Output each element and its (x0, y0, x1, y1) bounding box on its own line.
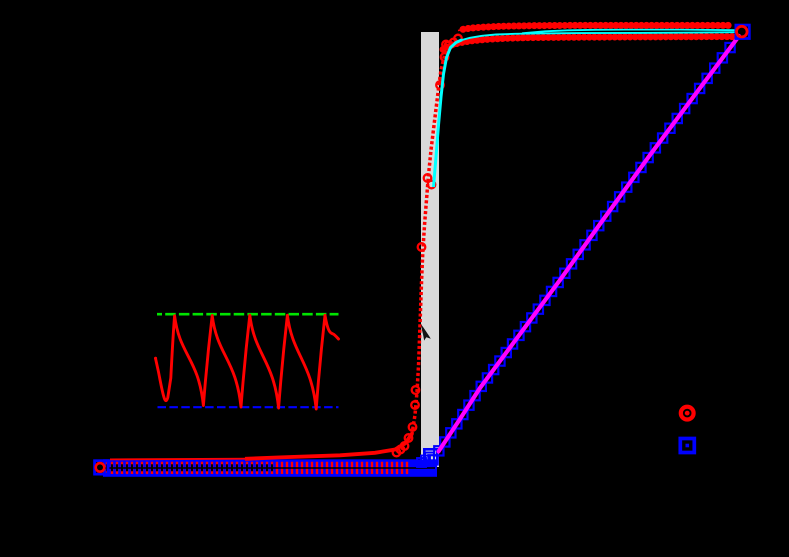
red dotted model line (lower branch into steep rise) (245, 434, 412, 459)
cyan model curve upper envelope (522, 30, 738, 34)
red circle data markers on rise (393, 449, 401, 457)
black marker holes (107, 464, 272, 471)
large blue square end marker (736, 25, 749, 38)
red lower envelope plateau (dense dots) (443, 37, 733, 50)
red upper envelope plateau (dense dots) (463, 25, 733, 29)
red upper envelope thin lead-in (458, 28, 472, 30)
large blue square marker at transition (424, 449, 437, 462)
gray transition band (421, 32, 439, 467)
red dotted steep rise line (412, 39, 458, 435)
large blue square start marker (95, 461, 108, 474)
inset green dashed max line (157, 313, 339, 316)
cyan model curve steep segment (434, 40, 463, 187)
cyan model curve lower envelope (460, 32, 738, 40)
legend blue square marker (680, 439, 694, 453)
blue square markers staircase (428, 455, 437, 464)
red circles flat band stripes (107, 462, 407, 474)
blue square markers entering rise (417, 458, 426, 467)
magenta power-law fit line (439, 36, 740, 452)
large red circle start marker (96, 463, 105, 472)
red model line thin left part (110, 458, 250, 461)
inset blue dashed min line (158, 406, 339, 408)
black annotation arrow (421, 324, 431, 340)
large red circle end marker (737, 26, 748, 37)
inset red oscillation curve (156, 315, 339, 409)
legend red circle marker (681, 407, 694, 420)
black gap line between marker rows (105, 467, 435, 469)
blue squares flat band (dense markers) (103, 459, 437, 477)
